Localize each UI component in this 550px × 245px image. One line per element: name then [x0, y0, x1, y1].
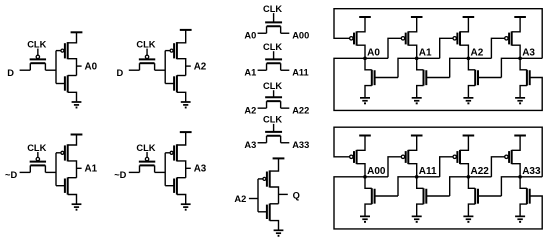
- svg-text:A11: A11: [419, 166, 437, 177]
- svg-text:~D: ~D: [5, 170, 17, 180]
- svg-text:Q: Q: [293, 190, 300, 200]
- svg-text:A22: A22: [471, 166, 490, 177]
- svg-text:CLK: CLK: [136, 143, 155, 153]
- svg-text:A33: A33: [522, 166, 541, 177]
- svg-text:A0: A0: [244, 31, 256, 41]
- svg-text:A2: A2: [234, 194, 246, 204]
- svg-text:A0: A0: [85, 61, 98, 72]
- svg-text:CLK: CLK: [27, 39, 46, 49]
- svg-text:A1: A1: [419, 47, 432, 58]
- svg-text:~D: ~D: [114, 170, 126, 180]
- svg-text:A3: A3: [244, 140, 256, 150]
- svg-text:A1: A1: [244, 68, 256, 78]
- svg-text:A2: A2: [471, 47, 484, 58]
- svg-text:D: D: [116, 68, 123, 78]
- svg-text:A22: A22: [292, 106, 309, 116]
- svg-text:A3: A3: [522, 47, 535, 58]
- svg-text:A3: A3: [194, 164, 207, 175]
- svg-text:A00: A00: [292, 31, 309, 41]
- svg-text:CLK: CLK: [263, 115, 282, 125]
- svg-text:A11: A11: [292, 68, 309, 78]
- svg-text:A33: A33: [292, 140, 309, 150]
- svg-text:A2: A2: [194, 61, 207, 72]
- svg-text:CLK: CLK: [263, 81, 282, 91]
- svg-text:CLK: CLK: [136, 39, 155, 49]
- svg-text:CLK: CLK: [27, 143, 46, 153]
- svg-text:A2: A2: [244, 106, 256, 116]
- svg-text:CLK: CLK: [263, 42, 282, 52]
- svg-text:D: D: [7, 68, 14, 78]
- svg-text:A1: A1: [85, 164, 98, 175]
- svg-text:A00: A00: [367, 166, 386, 177]
- svg-text:A0: A0: [367, 47, 380, 58]
- svg-text:CLK: CLK: [263, 4, 282, 14]
